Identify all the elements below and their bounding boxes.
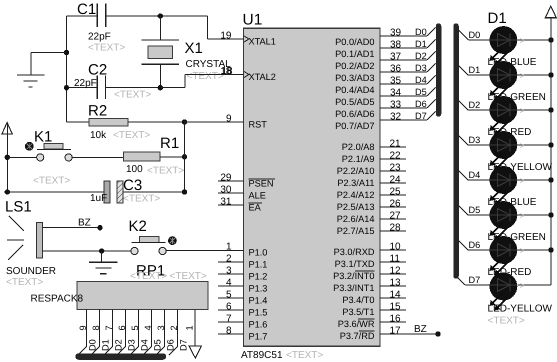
svg-text:8: 8 — [91, 325, 101, 330]
svg-text:LS1: LS1 — [5, 199, 32, 216]
svg-text:SOUNDER: SOUNDER — [6, 266, 56, 277]
svg-text:D6: D6 — [166, 339, 176, 351]
svg-text:27: 27 — [390, 210, 402, 221]
svg-text:39: 39 — [390, 27, 402, 38]
svg-text:26: 26 — [390, 198, 402, 209]
svg-text:<TEXT>: <TEXT> — [170, 271, 207, 282]
svg-text:2: 2 — [226, 253, 232, 264]
svg-text:>: > — [520, 106, 525, 116]
svg-text:D5: D5 — [469, 205, 481, 215]
svg-text:D1: D1 — [469, 65, 481, 75]
svg-text:D6: D6 — [469, 240, 481, 250]
svg-text:P2.6/A14: P2.6/A14 — [337, 214, 375, 224]
svg-text:6: 6 — [117, 325, 127, 330]
svg-text:XTAL2: XTAL2 — [249, 72, 276, 82]
svg-text:<TEXT>: <TEXT> — [286, 350, 323, 361]
svg-text:P0.1/AD1: P0.1/AD1 — [335, 49, 374, 59]
svg-text:P0.4/AD4: P0.4/AD4 — [335, 85, 374, 95]
svg-text:>: > — [520, 141, 525, 151]
svg-text:37: 37 — [390, 51, 402, 62]
svg-text:BZ: BZ — [78, 218, 91, 229]
svg-text:<TEXT>: <TEXT> — [114, 90, 151, 101]
svg-text:AT89C51: AT89C51 — [241, 350, 283, 361]
svg-text:19: 19 — [220, 30, 232, 41]
svg-text:<TEXT>: <TEXT> — [33, 176, 70, 187]
svg-text:C3: C3 — [123, 177, 142, 194]
svg-text:P2.7/A15: P2.7/A15 — [337, 226, 375, 236]
svg-text:4: 4 — [226, 277, 232, 288]
svg-text:P1.1: P1.1 — [249, 260, 268, 270]
svg-text:4: 4 — [143, 325, 153, 330]
svg-text:D3: D3 — [415, 63, 427, 73]
svg-text:P1.4: P1.4 — [249, 296, 268, 306]
svg-text:<TEXT>: <TEXT> — [187, 71, 224, 82]
svg-text:6: 6 — [226, 301, 232, 312]
svg-text:7: 7 — [226, 313, 232, 324]
svg-text:P3.5/T1: P3.5/T1 — [342, 307, 374, 317]
svg-text:D1: D1 — [415, 39, 427, 49]
svg-text:P1.0: P1.0 — [249, 248, 268, 258]
svg-text:RST: RST — [249, 120, 268, 130]
svg-text:P2.5/A13: P2.5/A13 — [337, 202, 375, 212]
svg-text:3: 3 — [226, 265, 232, 276]
svg-text:K1: K1 — [34, 129, 52, 146]
svg-text:D6: D6 — [415, 99, 427, 109]
svg-text:17: 17 — [390, 325, 402, 336]
svg-text:P1.6: P1.6 — [249, 320, 268, 330]
svg-text:5: 5 — [130, 325, 140, 330]
svg-text:P2.2/A10: P2.2/A10 — [337, 166, 375, 176]
svg-text:D2: D2 — [469, 100, 481, 110]
svg-text:D2: D2 — [114, 339, 124, 351]
svg-text:P1.5: P1.5 — [249, 308, 268, 318]
svg-text:<TEXT>: <TEXT> — [6, 277, 43, 288]
svg-text:34: 34 — [390, 87, 402, 98]
svg-text:<TEXT>: <TEXT> — [113, 130, 150, 141]
svg-text:33: 33 — [390, 99, 402, 110]
svg-text:D4: D4 — [140, 339, 150, 351]
svg-text:9: 9 — [78, 325, 88, 330]
svg-text:7: 7 — [104, 325, 114, 330]
svg-text:XTAL1: XTAL1 — [249, 37, 276, 47]
svg-text:D1: D1 — [101, 339, 111, 351]
svg-text:1: 1 — [185, 325, 195, 330]
svg-text:D7: D7 — [469, 275, 481, 285]
svg-text:P2.1/A9: P2.1/A9 — [342, 154, 375, 164]
svg-text:P0.0/AD0: P0.0/AD0 — [335, 37, 374, 47]
svg-text:30: 30 — [220, 184, 232, 195]
svg-text:36: 36 — [390, 63, 402, 74]
svg-text:14: 14 — [390, 289, 402, 300]
svg-text:P3.2/INT0: P3.2/INT0 — [333, 271, 374, 281]
svg-text:<TEXT>: <TEXT> — [130, 271, 167, 282]
svg-text:LED-YELLOW: LED-YELLOW — [488, 304, 553, 315]
svg-text:D0: D0 — [88, 339, 98, 351]
svg-text:ALE: ALE — [249, 191, 266, 201]
svg-text:D1: D1 — [488, 10, 507, 27]
svg-text:12: 12 — [390, 265, 402, 276]
svg-text:P3.4/T0: P3.4/T0 — [342, 295, 374, 305]
svg-text:>: > — [520, 211, 525, 221]
svg-text:25: 25 — [390, 186, 402, 197]
svg-text:D7: D7 — [179, 339, 189, 351]
svg-text:10: 10 — [390, 241, 402, 252]
svg-text:<TEXT>: <TEXT> — [88, 43, 125, 54]
svg-text:D0: D0 — [469, 30, 481, 40]
svg-text:D3: D3 — [127, 339, 137, 351]
svg-text:32: 32 — [390, 111, 402, 122]
svg-text:P1.7: P1.7 — [249, 332, 268, 342]
svg-text:P0.2/AD2: P0.2/AD2 — [335, 61, 374, 71]
svg-text:21: 21 — [390, 138, 402, 149]
svg-text:P0.3/AD3: P0.3/AD3 — [335, 73, 374, 83]
svg-text:EA: EA — [249, 203, 262, 213]
svg-text:R2: R2 — [88, 103, 107, 120]
svg-text:P2.4/A12: P2.4/A12 — [337, 190, 375, 200]
svg-text:D3: D3 — [469, 135, 481, 145]
svg-text:1uF: 1uF — [90, 193, 107, 204]
svg-text:P3.1/TXD: P3.1/TXD — [335, 259, 375, 269]
svg-text:D4: D4 — [469, 170, 481, 180]
svg-text:D7: D7 — [415, 111, 427, 121]
svg-text:9: 9 — [226, 113, 232, 124]
svg-text:28: 28 — [390, 222, 402, 233]
svg-text:22: 22 — [390, 150, 402, 161]
svg-text:2: 2 — [169, 325, 179, 330]
svg-text:P3.7/RD: P3.7/RD — [340, 331, 375, 341]
svg-text:>: > — [520, 281, 525, 291]
svg-text:U1: U1 — [243, 11, 263, 28]
svg-text:P1.2: P1.2 — [249, 272, 268, 282]
svg-text:P0.5/AD5: P0.5/AD5 — [335, 97, 374, 107]
svg-text:RESPACK8: RESPACK8 — [31, 294, 84, 305]
svg-text:D4: D4 — [415, 75, 427, 85]
svg-text:23: 23 — [390, 162, 402, 173]
svg-text:38: 38 — [390, 39, 402, 50]
svg-text:P3.6/WR: P3.6/WR — [338, 319, 375, 329]
svg-text:P3.3/INT1: P3.3/INT1 — [333, 283, 374, 293]
svg-text:BZ: BZ — [414, 324, 427, 335]
svg-text:C1: C1 — [77, 1, 96, 18]
svg-text:K2: K2 — [129, 218, 147, 235]
svg-text:13: 13 — [390, 277, 402, 288]
svg-text:8: 8 — [226, 325, 232, 336]
svg-text:5: 5 — [226, 289, 232, 300]
svg-text:18: 18 — [222, 66, 234, 77]
svg-text:P2.3/A11: P2.3/A11 — [337, 178, 374, 188]
svg-text:22pF: 22pF — [74, 78, 97, 89]
svg-text:3: 3 — [156, 325, 166, 330]
svg-text:31: 31 — [220, 196, 232, 207]
svg-text:16: 16 — [390, 313, 402, 324]
svg-text:<TEXT>: <TEXT> — [123, 194, 160, 205]
svg-text:P2.0/A8: P2.0/A8 — [342, 142, 375, 152]
svg-text:D0: D0 — [415, 27, 427, 37]
svg-text:D2: D2 — [415, 51, 427, 61]
svg-text:>: > — [520, 71, 525, 81]
svg-text:29: 29 — [220, 172, 232, 183]
svg-text:X1: X1 — [185, 40, 203, 57]
svg-text:<TEXT>: <TEXT> — [147, 166, 184, 177]
svg-text:35: 35 — [390, 75, 402, 86]
svg-text:R1: R1 — [160, 135, 179, 152]
svg-text:P1.3: P1.3 — [249, 284, 268, 294]
svg-text:P3.0/RXD: P3.0/RXD — [334, 247, 375, 257]
svg-text:24: 24 — [390, 174, 402, 185]
svg-text:10k: 10k — [90, 130, 107, 141]
svg-text:>: > — [520, 176, 525, 186]
svg-text:11: 11 — [390, 253, 401, 264]
svg-text:100: 100 — [126, 164, 143, 175]
svg-text:15: 15 — [390, 301, 402, 312]
svg-text:P0.7/AD7: P0.7/AD7 — [335, 121, 374, 131]
svg-text:<TEXT>: <TEXT> — [488, 316, 525, 327]
svg-text:D5: D5 — [153, 339, 163, 351]
svg-text:P0.6/AD6: P0.6/AD6 — [335, 109, 374, 119]
svg-text:22pF: 22pF — [88, 32, 111, 43]
svg-text:>: > — [520, 36, 525, 46]
svg-text:PSEN: PSEN — [249, 179, 274, 189]
svg-text:>: > — [520, 246, 525, 256]
svg-text:D5: D5 — [415, 87, 427, 97]
